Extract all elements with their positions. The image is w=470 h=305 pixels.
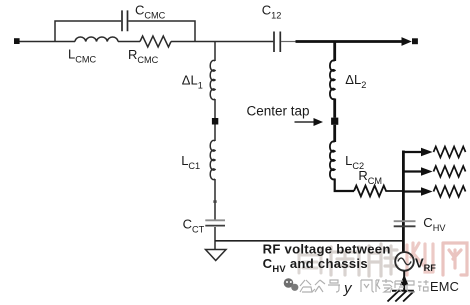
svg-text:RF voltage between: RF voltage between (263, 241, 391, 256)
svg-text:Center tap: Center tap (247, 103, 310, 118)
svg-text:EMC: EMC (430, 279, 459, 294)
